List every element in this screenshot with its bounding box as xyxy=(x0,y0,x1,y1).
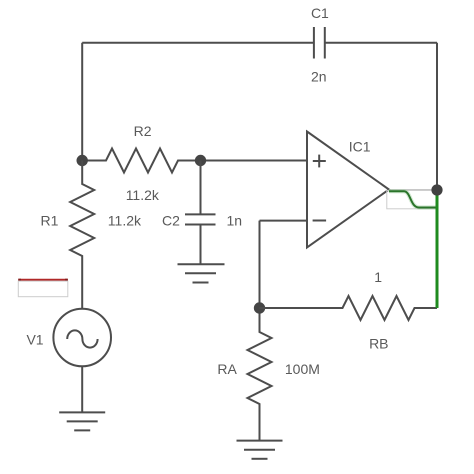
label RA xyxy=(217,361,237,377)
wire C2 to ground xyxy=(200,225,202,265)
green wire feedback vertical xyxy=(436,190,439,308)
wire op-amp inverting input horizontal xyxy=(260,220,308,222)
label C2 xyxy=(162,212,180,228)
capacitor C2 xyxy=(185,214,216,224)
label IC1 xyxy=(349,139,371,155)
op-amp IC1 xyxy=(307,132,389,248)
wire top right: C1 right plate to right vertical xyxy=(325,42,437,44)
wire V1 to ground xyxy=(81,366,83,412)
op-amp inverting pin - xyxy=(313,220,327,222)
svg-text:C1: C1 xyxy=(311,5,329,21)
resistor R2 xyxy=(82,149,200,173)
svg-text:100M: 100M xyxy=(285,361,320,377)
wire op-amp output to node D xyxy=(389,189,437,191)
resistor R1 xyxy=(70,161,94,309)
resistor RA xyxy=(248,308,272,441)
wire node B down to C2 xyxy=(200,161,202,215)
label R2 xyxy=(134,123,152,139)
ground at V1 xyxy=(59,412,105,430)
svg-text:IC1: IC1 xyxy=(349,139,371,155)
svg-text:R2: R2 xyxy=(134,123,152,139)
svg-text:RA: RA xyxy=(217,361,237,377)
label C1 xyxy=(311,5,329,21)
svg-text:11.2k: 11.2k xyxy=(126,187,160,203)
node B (junction of R2, C2, op-amp + input) xyxy=(195,155,206,166)
capacitor C1 xyxy=(314,27,325,59)
svg-text:C2: C2 xyxy=(162,212,180,228)
wire node B to op-amp non-inverting input xyxy=(201,160,308,162)
node D (op-amp output junction) xyxy=(431,184,442,195)
label V1 xyxy=(26,331,43,347)
ground at RA xyxy=(237,441,283,459)
label RA value 100M xyxy=(285,361,320,377)
current probe red marker xyxy=(18,279,68,281)
label R1 xyxy=(41,213,59,229)
ground at C2 xyxy=(178,264,225,282)
label C1 value 2n xyxy=(311,68,327,84)
svg-text:2n: 2n xyxy=(311,68,327,84)
label C2 value 1n xyxy=(227,213,243,229)
node A (junction of top wire, R1, R2) xyxy=(77,155,88,166)
svg-text:1n: 1n xyxy=(227,213,243,229)
label RB xyxy=(369,336,388,352)
node C (junction of inverting input, RA, RB) xyxy=(254,302,265,313)
voltage source V1 xyxy=(53,309,111,367)
wire top left: node A to C1 left plate xyxy=(82,42,314,44)
wire left vertical: top corner down to node A xyxy=(81,43,83,161)
svg-text:V1: V1 xyxy=(26,331,43,347)
green wire op-amp output S-curve xyxy=(389,191,437,207)
resistor RB xyxy=(260,296,438,320)
wire inverting input down to node C xyxy=(259,221,261,308)
svg-text:R1: R1 xyxy=(41,213,59,229)
label R1 value 11.2k xyxy=(108,213,142,229)
svg-text:11.2k: 11.2k xyxy=(108,213,142,229)
label RB value 1 xyxy=(374,269,382,285)
probe readout box xyxy=(18,281,68,297)
label R2 value 11.2k xyxy=(126,187,160,203)
svg-text:RB: RB xyxy=(369,336,388,352)
output highlight box xyxy=(387,190,437,208)
svg-text:1: 1 xyxy=(374,269,382,285)
op-amp non-inverting pin + xyxy=(313,155,326,168)
wire right vertical: top corner down to node D xyxy=(436,43,438,190)
